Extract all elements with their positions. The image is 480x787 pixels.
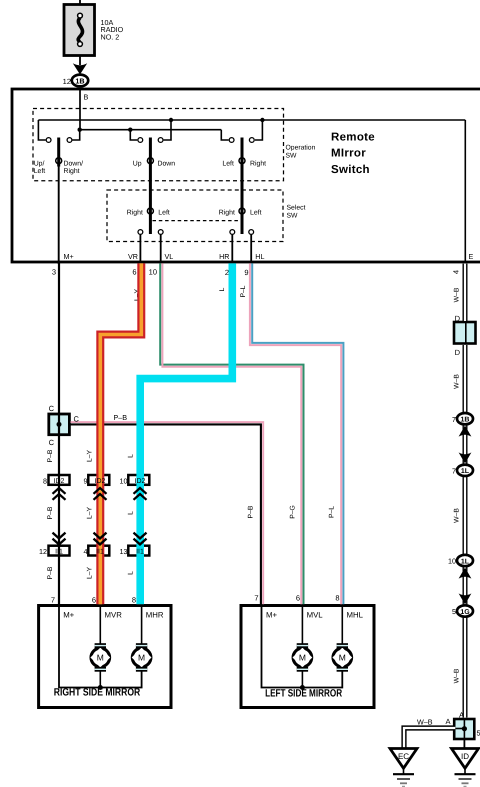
wire W-B segment 1L to 1L (463, 475, 468, 556)
select contact VL (158, 230, 163, 263)
wire M+ right mirror internal bus (59, 606, 142, 688)
svg-text:10: 10 (149, 268, 157, 277)
svg-text:8: 8 (132, 596, 136, 605)
svg-text:M: M (97, 653, 104, 663)
pole arm group1 (to M+) (56, 138, 62, 265)
svg-text:RIGHT SIDE MIRROR: RIGHT SIDE MIRROR (54, 687, 141, 699)
W-B labels right column (454, 287, 461, 683)
arrow down into 1L oval (459, 452, 472, 463)
svg-text:M: M (299, 653, 306, 663)
arrow down into 1G oval (459, 593, 472, 604)
wire VL P-G green/pink (160, 263, 303, 604)
svg-text:5: 5 (477, 729, 480, 738)
svg-text:W–B: W–B (454, 668, 461, 683)
right mirror labels (54, 611, 164, 699)
svg-text:L: L (128, 511, 135, 515)
node left mirror bus junction (300, 685, 305, 690)
svg-text:P–L: P–L (240, 285, 247, 297)
connector D labels (455, 314, 461, 357)
ground symbol ID (455, 768, 476, 787)
wire labels left mirror columns (248, 505, 336, 519)
svg-text:7: 7 (452, 466, 456, 475)
contact Up/Left feed (38, 120, 51, 142)
connector 13 II1 box (128, 546, 149, 556)
wire W-B horizontal A to EC (404, 728, 455, 749)
connector oval 10 (1L) (457, 555, 473, 566)
svg-text:L: L (128, 571, 135, 575)
svg-text:Down: Down (158, 161, 176, 168)
svg-text:W–B: W–B (454, 287, 461, 302)
connector oval 12 (1B) (63, 75, 89, 87)
svg-text:VR: VR (128, 252, 138, 261)
wire MVL MHL motor stems (302, 606, 342, 688)
svg-text:M: M (138, 653, 145, 663)
remote mirror switch box (12, 89, 480, 262)
wire W-B inside A with node (454, 719, 467, 739)
bus line 1 (to E) (38, 119, 465, 121)
wire M+ P-B black vertical (58, 262, 60, 606)
svg-text:L–Y: L–Y (87, 506, 94, 519)
svg-text:MVL: MVL (307, 611, 324, 620)
svg-text:5: 5 (452, 607, 456, 616)
connector A box (454, 719, 474, 739)
wire W-B segment 1B to 1L (463, 424, 468, 466)
ground symbol EC (393, 768, 414, 787)
wire W-B segment E to D (463, 264, 468, 321)
svg-text:MHR: MHR (146, 611, 164, 620)
svg-text:II1: II1 (55, 549, 63, 556)
connector oval 7 (1B) (457, 413, 473, 424)
svg-text:Left: Left (34, 168, 46, 175)
arrow into connector 1B (73, 63, 87, 74)
motor MHL (332, 643, 352, 672)
svg-text:1G: 1G (460, 609, 470, 616)
node bus1 right riser (260, 118, 264, 122)
wire HL P-L pink/blue (250, 263, 344, 604)
fuse 10A RADIO NO.2 (64, 5, 124, 56)
svg-text:HR: HR (219, 252, 229, 261)
svg-text:SW: SW (286, 153, 298, 160)
connector numbers ID2 row (39, 476, 128, 556)
svg-text:LEFT SIDE MIRROR: LEFT SIDE MIRROR (265, 688, 342, 700)
svg-text:VL: VL (165, 252, 174, 261)
svg-text:7: 7 (452, 415, 456, 424)
wire M+ left mirror internal bus (262, 606, 343, 688)
wire VR L-Y red/orange (100, 263, 141, 604)
wire label L-Y under VR wire (134, 288, 141, 301)
connector 4 II1 box (88, 546, 109, 556)
right side mirror box (39, 606, 171, 708)
svg-text:P–L: P–L (329, 506, 336, 518)
svg-text:1B: 1B (75, 76, 84, 85)
wire W-B segment D to 1B (463, 345, 468, 414)
arrow up into 1L(10) oval (459, 568, 472, 579)
svg-text:Left: Left (158, 209, 170, 216)
pole arm group2 (147, 138, 153, 235)
svg-text:L: L (219, 287, 226, 291)
svg-text:E: E (469, 252, 474, 261)
select contact HL (249, 230, 254, 263)
svg-text:7: 7 (51, 596, 55, 605)
svg-text:7: 7 (254, 594, 258, 603)
ground EC triangle (390, 749, 417, 769)
wire label L on HR (219, 287, 226, 291)
select SW dashed box (107, 190, 306, 242)
svg-text:A: A (445, 717, 450, 726)
pin numbers above right mirror (51, 596, 136, 605)
svg-text:Down/: Down/ (64, 161, 84, 168)
svg-text:1B: 1B (461, 417, 470, 424)
svg-text:Right: Right (219, 209, 235, 216)
node C box junction (57, 422, 62, 427)
svg-text:MHL: MHL (347, 611, 364, 620)
wire W-B segment 1L to 1G (463, 565, 468, 607)
select contact VR (138, 230, 143, 263)
wire W-B inside D (465, 323, 467, 343)
svg-text:W–B: W–B (454, 508, 461, 523)
title Remote MIrror Switch (331, 132, 375, 176)
node bus1 down riser (169, 118, 173, 122)
wire from top edge to fuse (79, 0, 81, 6)
pin numbers below box (52, 268, 461, 278)
svg-text:10: 10 (120, 476, 128, 485)
contact Up feed (130, 130, 142, 143)
svg-text:ID2: ID2 (135, 478, 146, 485)
svg-text:M: M (339, 653, 346, 663)
svg-text:W–B: W–B (417, 718, 433, 727)
svg-text:L: L (128, 454, 135, 458)
svg-text:MVR: MVR (105, 611, 123, 620)
svg-text:HL: HL (255, 252, 264, 261)
svg-text:6: 6 (132, 268, 136, 277)
chevrons down into II1 row (53, 533, 147, 545)
svg-text:A: A (459, 711, 464, 720)
connector D box (454, 322, 476, 344)
svg-text:B: B (84, 93, 89, 102)
bus line 2 (from B) (80, 129, 222, 131)
svg-text:W–B: W–B (454, 374, 461, 389)
wire labels L column 3 (128, 454, 135, 575)
select contact HR (230, 230, 235, 263)
operation SW dashed box (33, 109, 316, 181)
connector 12 II1 box (49, 546, 70, 556)
node bus2 up riser (128, 128, 132, 132)
svg-text:ID: ID (461, 752, 469, 761)
svg-text:C: C (74, 415, 80, 424)
svg-text:ID2: ID2 (95, 478, 106, 485)
svg-text:Remote: Remote (331, 132, 375, 144)
wire W-B segment 1G to A (463, 616, 468, 718)
svg-text:Right: Right (64, 168, 80, 175)
pin numbers above left mirror (254, 594, 339, 603)
svg-text:6: 6 (296, 594, 300, 603)
svg-text:Right: Right (127, 209, 143, 216)
svg-text:9: 9 (84, 476, 88, 485)
select SW mechanical coupling dashed (153, 220, 239, 222)
wire A box to ID triangle (463, 739, 465, 749)
pole arm group3 (239, 138, 245, 235)
pin labels inside box (64, 252, 474, 261)
connector numbers right column (448, 415, 456, 616)
svg-text:6: 6 (92, 596, 96, 605)
connector C box (49, 414, 70, 435)
svg-text:C: C (49, 438, 55, 447)
svg-text:NO. 2: NO. 2 (101, 33, 120, 42)
svg-text:P–B: P–B (47, 506, 54, 519)
connector A labels (445, 711, 480, 738)
svg-text:D: D (455, 314, 461, 323)
connector oval 5 (1G) (457, 605, 473, 616)
ground ID triangle (452, 749, 479, 769)
svg-text:P–B: P–B (248, 505, 255, 518)
contact Down feed (158, 120, 171, 142)
node B junction (78, 128, 82, 132)
svg-text:II1: II1 (96, 549, 104, 556)
wire labels L-Y column 2 (87, 449, 94, 579)
motor MHR (132, 643, 152, 672)
connector texts ID2 II1 (54, 478, 146, 556)
svg-text:M+: M+ (266, 611, 277, 620)
svg-text:4: 4 (452, 270, 461, 274)
svg-text:2: 2 (225, 268, 229, 277)
connector oval 7 (1L) (457, 465, 473, 476)
svg-text:P–B: P–B (47, 566, 54, 579)
svg-text:Left: Left (222, 161, 234, 168)
wire labels P-B column 1 (47, 449, 54, 579)
svg-text:ID2: ID2 (54, 478, 65, 485)
wire B into switch (80, 89, 89, 131)
svg-text:Up: Up (133, 161, 142, 168)
arrow up into 1B oval (459, 426, 472, 437)
svg-text:3: 3 (52, 268, 56, 277)
svg-text:9: 9 (244, 268, 248, 277)
svg-text:II1: II1 (136, 549, 144, 556)
connector 9 ID2 box (88, 475, 109, 485)
connector 10 ID2 box (128, 475, 149, 485)
svg-text:Select: Select (287, 205, 306, 212)
svg-text:10: 10 (448, 557, 456, 566)
connector 8 ID2 box (49, 475, 70, 485)
operation SW labels (34, 161, 266, 176)
svg-text:C: C (49, 404, 55, 413)
wire label P-L on HL (240, 285, 247, 297)
svg-text:P–G: P–G (289, 505, 296, 519)
svg-text:Right: Right (250, 161, 266, 168)
contact Right feed (249, 120, 262, 142)
connector C labels (49, 404, 80, 447)
wire label W-B horizontal (417, 718, 433, 727)
svg-text:4: 4 (84, 547, 88, 556)
svg-text:P–B: P–B (47, 449, 54, 462)
svg-text:D: D (455, 348, 461, 357)
motor MVL (293, 643, 313, 672)
left side mirror box (241, 606, 374, 708)
motor MVR (90, 643, 110, 672)
svg-text:P–B: P–B (114, 413, 128, 422)
wire MVR motor stems (100, 606, 141, 688)
svg-text:13: 13 (120, 547, 128, 556)
svg-text:Left: Left (250, 209, 262, 216)
svg-text:Up/: Up/ (34, 161, 45, 168)
node right mirror bus junction (98, 685, 103, 690)
chevrons up into ID2 row (53, 488, 147, 500)
svg-text:8: 8 (335, 594, 339, 603)
svg-text:8: 8 (43, 476, 47, 485)
wire E inside switch (464, 120, 466, 262)
wire label P-B horizontal (114, 413, 128, 422)
svg-text:Switch: Switch (331, 164, 370, 176)
svg-text:EC: EC (398, 752, 409, 761)
svg-text:Operation: Operation (286, 145, 316, 152)
svg-text:L–Y: L–Y (87, 449, 94, 462)
wire P-B from C to left mirror (pink outer) (70, 422, 263, 604)
contact Left feed (221, 130, 234, 143)
svg-text:12: 12 (39, 547, 47, 556)
wire fuse to connector arrow (79, 56, 81, 66)
wire HR L cyan (140, 263, 232, 604)
svg-text:SW: SW (287, 213, 299, 220)
select SW labels (127, 209, 262, 216)
contact Down/Right feed (67, 130, 80, 143)
left mirror labels (265, 611, 364, 700)
svg-text:1L: 1L (461, 468, 470, 475)
svg-text:M+: M+ (64, 252, 74, 261)
svg-text:M+: M+ (63, 611, 74, 620)
svg-text:12: 12 (63, 77, 71, 86)
svg-text:MIrror: MIrror (331, 148, 366, 160)
svg-text:1L: 1L (461, 558, 470, 565)
svg-text:L–Y: L–Y (87, 566, 94, 579)
